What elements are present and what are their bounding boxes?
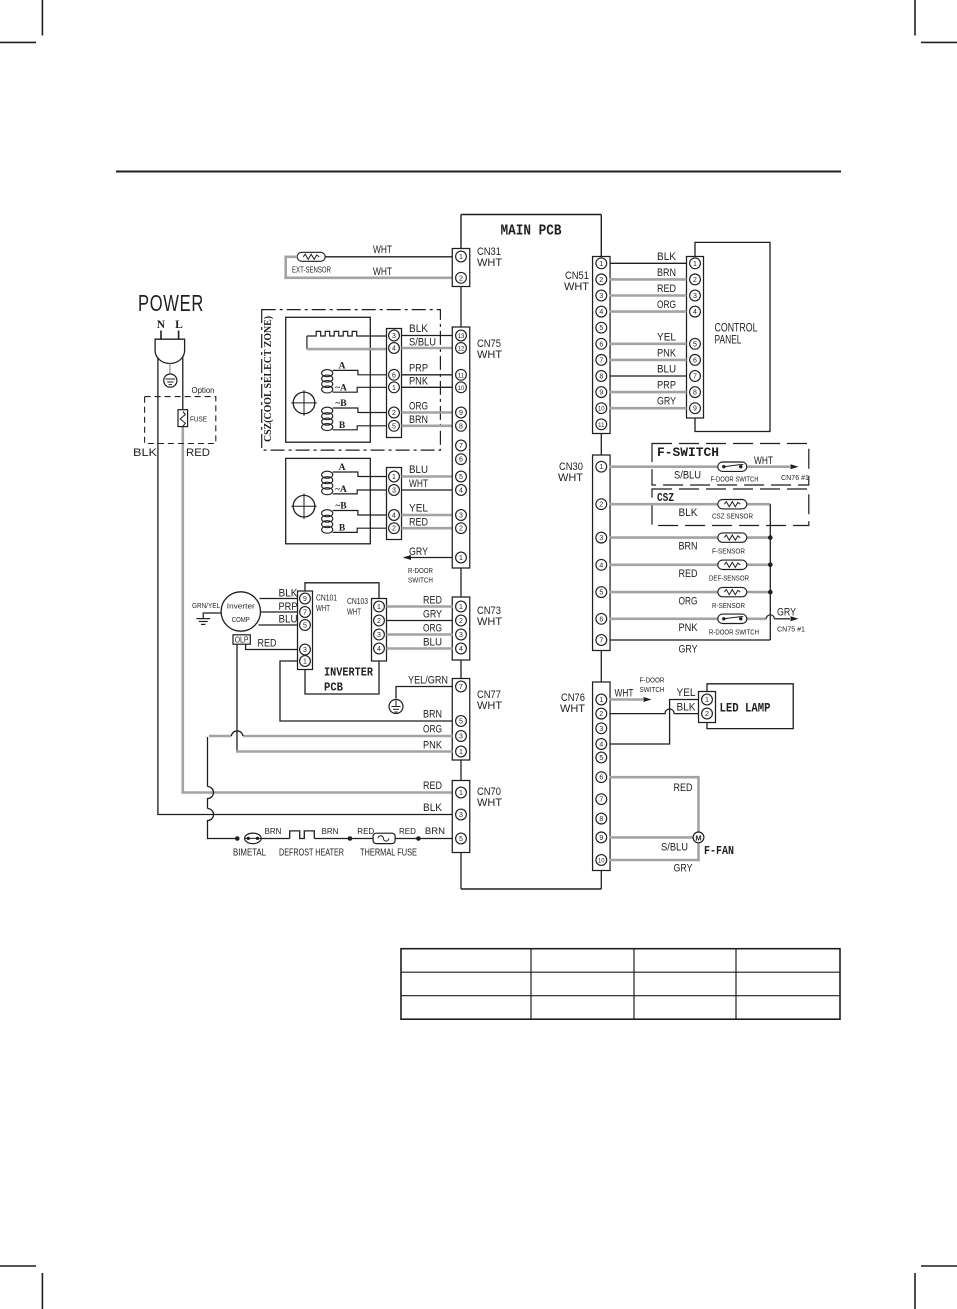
R damper coil B — [322, 502, 387, 534]
svg-text:N: N — [157, 319, 166, 331]
CSZ damper coil B — [322, 399, 387, 431]
svg-text:WHT: WHT — [347, 607, 361, 617]
svg-text:GRN/YEL: GRN/YEL — [192, 601, 220, 610]
wire ORG CN51 to control panel — [610, 310, 687, 313]
svg-text:9: 9 — [599, 390, 603, 397]
CSZ damper motor — [291, 390, 317, 416]
ground GRN/YEL — [196, 613, 221, 624]
svg-text:PNK: PNK — [679, 622, 699, 634]
wire RED damper to CN75 pin2 — [402, 527, 453, 530]
CSZ damper coil A — [322, 362, 387, 394]
svg-text:WHT: WHT — [477, 616, 502, 628]
inverter compressor COMP — [221, 592, 260, 631]
parts table — [401, 949, 840, 1020]
svg-text:RED: RED — [423, 780, 442, 792]
svg-text:~A: ~A — [335, 485, 347, 495]
sensor bus vertical — [769, 504, 771, 640]
DEF sensor — [709, 560, 749, 582]
svg-text:BLK: BLK — [409, 323, 429, 335]
svg-text:WHT: WHT — [477, 349, 502, 361]
svg-text:F-DOOR SWITCH: F-DOOR SWITCH — [711, 475, 759, 484]
svg-text:1: 1 — [459, 254, 463, 261]
svg-text:DEFROST HEATER: DEFROST HEATER — [279, 848, 344, 859]
connector CSZ-damper — [387, 329, 402, 438]
connector CN75 — [452, 327, 502, 568]
bimetal — [233, 833, 266, 858]
main PCB box — [461, 215, 601, 890]
wire PRP damper to CN75 pin11 — [402, 374, 453, 376]
wire S/BLU damper to CN75 pin12 — [402, 347, 453, 350]
svg-text:BLU: BLU — [279, 614, 298, 626]
svg-text:7: 7 — [459, 684, 463, 691]
connector CN51 — [564, 257, 610, 434]
svg-text:1: 1 — [392, 385, 396, 392]
svg-text:5: 5 — [303, 623, 307, 630]
wire CN70 to bottom edge — [460, 853, 462, 890]
svg-text:13: 13 — [458, 334, 465, 340]
R-door switch — [709, 614, 759, 636]
Option dashed box — [145, 397, 216, 444]
svg-text:1: 1 — [459, 555, 463, 562]
wire WHT CN76 pin1 to F-door switch — [610, 698, 643, 701]
svg-text:YEL: YEL — [409, 503, 428, 515]
svg-text:1: 1 — [599, 464, 603, 471]
connector LED-lamp — [699, 692, 716, 723]
svg-text:1: 1 — [303, 659, 307, 666]
R damper motor — [291, 493, 317, 519]
svg-text:YEL: YEL — [657, 331, 676, 343]
svg-text:WHT: WHT — [373, 244, 392, 256]
svg-text:CSZ: CSZ — [657, 491, 674, 505]
svg-text:BLK: BLK — [657, 251, 677, 263]
svg-text:6: 6 — [599, 341, 603, 348]
svg-text:BLU: BLU — [409, 464, 428, 476]
svg-text:B: B — [339, 524, 346, 534]
svg-text:WHT: WHT — [373, 266, 392, 278]
svg-text:2: 2 — [377, 618, 381, 625]
svg-text:PCB: PCB — [324, 681, 343, 695]
svg-text:5: 5 — [459, 836, 463, 843]
R damper housing box — [286, 458, 371, 543]
wire PRP COMP to CN101 pin7 — [261, 611, 298, 613]
svg-text:CN76 #1: CN76 #1 — [781, 473, 809, 482]
svg-text:RED: RED — [657, 283, 676, 295]
svg-text:PNK: PNK — [423, 740, 443, 752]
wire RED junction to thermal fuse — [350, 838, 373, 840]
svg-text:ORG: ORG — [409, 401, 428, 413]
svg-text:7: 7 — [599, 357, 603, 364]
wire PRP CN51 to control panel — [610, 391, 687, 394]
CSZ damper housing box — [286, 317, 371, 442]
wire YEL CN76 pin4 to LED pin1 — [610, 700, 699, 745]
wire PNK OLP to CN77 pin1 — [236, 644, 238, 751]
svg-text:WHT: WHT — [477, 257, 502, 269]
node bus R-sensor — [768, 590, 773, 595]
svg-text:3: 3 — [459, 513, 463, 520]
wire CN77 to CN70 — [460, 760, 462, 781]
svg-text:A: A — [339, 463, 346, 473]
svg-text:CN101: CN101 — [316, 593, 337, 603]
wire CN76 to bottom edge — [600, 871, 602, 890]
svg-text:6: 6 — [459, 457, 463, 464]
svg-text:6: 6 — [599, 775, 603, 782]
ground screw on plug — [164, 363, 177, 387]
svg-text:3: 3 — [459, 734, 463, 741]
svg-text:4: 4 — [459, 646, 463, 653]
svg-text:2: 2 — [459, 618, 463, 625]
svg-text:FUSE: FUSE — [190, 415, 207, 424]
svg-text:4: 4 — [599, 309, 603, 316]
R sensor — [712, 587, 747, 610]
svg-text:~B: ~B — [335, 399, 347, 409]
wire BRN CN101 pin1 to CN77 pin5 — [280, 661, 453, 721]
svg-text:2: 2 — [693, 277, 697, 284]
svg-text:1: 1 — [693, 261, 697, 268]
svg-text:2: 2 — [599, 502, 603, 509]
svg-text:GRY: GRY — [777, 607, 797, 619]
wire BRN bimetal to defrost heater — [261, 838, 290, 840]
svg-text:BLK: BLK — [279, 588, 299, 600]
svg-text:S/BLU: S/BLU — [409, 337, 436, 349]
svg-text:2: 2 — [459, 526, 463, 533]
svg-text:5: 5 — [599, 325, 603, 332]
wire BRN damper to CN75 pin8 — [402, 424, 453, 427]
svg-text:10: 10 — [598, 859, 605, 865]
wire BLK CN51 to control panel — [610, 262, 687, 264]
connector CN103 — [372, 599, 387, 662]
svg-text:BRN: BRN — [657, 267, 676, 279]
wire ORG CN30 pin5 to R sensor — [610, 591, 771, 594]
wire PNK CN51 to control panel — [610, 359, 687, 362]
wire WHT EXT-SENSOR to CN31 pin1 — [325, 256, 453, 258]
svg-text:6: 6 — [392, 372, 396, 379]
wire GRY CN103 to CN73 pin2 — [387, 620, 453, 622]
defrost heater — [279, 831, 344, 859]
wire RED from plug through fuse — [182, 358, 184, 410]
svg-text:WHT: WHT — [560, 703, 585, 715]
wire WHT CN30 pin1 through F-door switch — [610, 465, 790, 468]
wire PNK CN30 pin6 through R-door switch — [610, 617, 767, 620]
svg-text:CN75 #1: CN75 #1 — [777, 625, 805, 634]
svg-text:EXT-SENSOR: EXT-SENSOR — [292, 266, 331, 275]
wire GRY CN51 to control panel — [610, 407, 687, 410]
node bus DEF-sensor — [768, 563, 773, 568]
svg-text:1: 1 — [599, 697, 603, 704]
svg-text:4: 4 — [392, 513, 396, 520]
svg-text:F-FAN: F-FAN — [704, 844, 734, 858]
svg-text:3: 3 — [599, 293, 603, 300]
svg-text:8: 8 — [599, 374, 603, 381]
CSZ dashed box — [652, 489, 809, 526]
svg-text:GRY: GRY — [409, 546, 429, 558]
wire GRY CN30 pin7 to sensor bus — [610, 639, 771, 641]
svg-text:5: 5 — [459, 719, 463, 726]
svg-text:PRP: PRP — [657, 380, 676, 392]
svg-text:F-SWITCH: F-SWITCH — [657, 445, 719, 460]
svg-text:~B: ~B — [335, 502, 347, 512]
svg-text:WHT: WHT — [564, 281, 589, 293]
svg-text:WHT: WHT — [316, 603, 330, 613]
svg-text:3: 3 — [377, 632, 381, 639]
svg-text:1: 1 — [459, 790, 463, 797]
wire RED CN76 pin6 to F-fan — [610, 777, 699, 832]
power plug — [155, 331, 185, 364]
svg-text:GRY: GRY — [657, 396, 677, 408]
svg-text:7: 7 — [693, 374, 697, 381]
svg-text:1: 1 — [459, 604, 463, 611]
svg-text:INVERTER: INVERTER — [324, 666, 374, 680]
svg-text:S/BLU: S/BLU — [674, 470, 701, 482]
svg-text:~A: ~A — [335, 384, 347, 394]
svg-text:F-SENSOR: F-SENSOR — [712, 547, 745, 556]
svg-text:Inverter: Inverter — [227, 602, 256, 611]
svg-text:1: 1 — [459, 749, 463, 756]
svg-text:CSZ(COOL SELECT ZONE): CSZ(COOL SELECT ZONE) — [263, 316, 274, 442]
R damper coil A — [322, 463, 387, 495]
svg-text:F-DOOR: F-DOOR — [640, 676, 665, 685]
svg-text:7: 7 — [459, 443, 463, 450]
svg-text:WHT: WHT — [477, 700, 502, 712]
svg-text:7: 7 — [303, 610, 307, 617]
svg-text:YEL: YEL — [677, 687, 696, 699]
svg-text:BRN: BRN — [679, 541, 698, 553]
INVERTER PCB box — [305, 583, 379, 695]
wire BLK CN76 pin2 to LED pin2 — [610, 709, 699, 714]
svg-text:10: 10 — [458, 386, 465, 392]
wire BLU CN51 to control panel — [610, 375, 687, 377]
wire RED CN30 pin4 to DEF sensor — [610, 563, 771, 566]
svg-text:BLK: BLK — [679, 507, 699, 519]
connector CN31 — [452, 246, 502, 287]
node defrost chain junction 1 — [235, 836, 240, 841]
wire YEL/GRN CN77 pin7 to earth — [396, 687, 453, 699]
svg-text:9: 9 — [693, 406, 697, 413]
svg-text:POWER: POWER — [138, 290, 204, 316]
wire PNK damper to CN75 pin10 — [402, 386, 453, 388]
wire BLK damper to CN75 pin13 — [402, 335, 453, 337]
svg-text:11: 11 — [598, 423, 605, 429]
svg-text:B: B — [339, 421, 346, 431]
OLP overload protector — [233, 635, 250, 645]
wire WHT damper to CN75 pin4 — [402, 489, 453, 491]
F-SWITCH dashed box — [652, 444, 809, 486]
svg-text:4: 4 — [599, 742, 603, 749]
thermal fuse — [360, 833, 417, 858]
svg-text:BRN: BRN — [409, 414, 428, 426]
wire CN51 to CN30 — [600, 434, 602, 456]
svg-text:R-SENSOR: R-SENSOR — [712, 601, 745, 610]
connector CN77 — [452, 679, 502, 761]
svg-text:9: 9 — [599, 835, 603, 842]
svg-text:5: 5 — [693, 341, 697, 348]
LED LAMP box — [707, 684, 793, 729]
svg-text:ORG: ORG — [657, 299, 676, 311]
svg-text:BRN: BRN — [423, 709, 442, 721]
svg-text:BRN: BRN — [265, 827, 282, 836]
svg-text:BLK: BLK — [677, 702, 697, 714]
svg-text:3: 3 — [599, 726, 603, 733]
svg-text:2: 2 — [599, 277, 603, 284]
wire BRN CN30 pin3 to F sensor — [610, 536, 771, 539]
wire CN73 to CN77 — [460, 660, 462, 679]
svg-text:COMP: COMP — [232, 615, 250, 624]
connector CN101 — [298, 591, 313, 670]
svg-text:PANEL: PANEL — [715, 333, 742, 347]
svg-text:R-DOOR: R-DOOR — [408, 566, 433, 575]
svg-text:GRY: GRY — [679, 644, 699, 656]
svg-text:RED: RED — [679, 568, 698, 580]
svg-text:1: 1 — [377, 604, 381, 611]
svg-text:A: A — [339, 362, 346, 372]
svg-text:5: 5 — [392, 423, 396, 430]
wire GRY CN76 pin10 to F-fan — [610, 843, 699, 860]
wire CN31 to CN75 — [460, 287, 462, 328]
fuse F1 — [178, 410, 207, 427]
svg-text:BRN: BRN — [425, 826, 445, 837]
connector R-damper — [387, 468, 402, 540]
svg-text:1: 1 — [599, 261, 603, 268]
svg-text:GRY: GRY — [423, 609, 443, 621]
svg-text:BRN: BRN — [322, 827, 339, 836]
wire ORG CN103 to CN73 pin3 — [387, 633, 453, 636]
svg-text:RED: RED — [674, 782, 693, 794]
wire ORG damper to CN75 pin9 — [402, 411, 453, 414]
svg-text:4: 4 — [392, 346, 396, 353]
svg-text:3: 3 — [599, 535, 603, 542]
svg-text:ORG: ORG — [679, 596, 698, 608]
svg-text:3: 3 — [459, 632, 463, 639]
wire CN30 to CN76 — [600, 651, 602, 683]
svg-text:WHT: WHT — [409, 478, 428, 490]
svg-text:SWITCH: SWITCH — [640, 685, 665, 694]
svg-text:WHT: WHT — [558, 472, 583, 484]
wire BLK from plug — [158, 358, 453, 815]
node bus F-sensor — [768, 535, 773, 540]
svg-text:6: 6 — [693, 357, 697, 364]
node defrost chain junction 2 — [348, 836, 353, 841]
svg-text:M: M — [695, 834, 701, 843]
svg-text:3: 3 — [459, 812, 463, 819]
svg-text:WHT: WHT — [754, 455, 773, 467]
svg-text:3: 3 — [392, 488, 396, 495]
svg-text:LED LAMP: LED LAMP — [720, 702, 771, 716]
svg-text:7: 7 — [599, 797, 603, 804]
CSZ damper heater comb — [307, 331, 387, 349]
svg-text:12: 12 — [458, 347, 465, 353]
svg-text:PNK: PNK — [409, 376, 429, 388]
svg-text:BIMETAL: BIMETAL — [233, 848, 266, 859]
svg-text:RED: RED — [423, 595, 442, 607]
svg-text:6: 6 — [599, 616, 603, 623]
svg-text:RED: RED — [399, 827, 416, 836]
svg-text:5: 5 — [459, 474, 463, 481]
wire BRN defrost heater to junction — [314, 838, 350, 840]
node defrost chain junction 3 — [416, 836, 421, 841]
svg-text:BLK: BLK — [423, 802, 443, 814]
svg-text:10: 10 — [598, 407, 605, 413]
svg-text:8: 8 — [599, 816, 603, 823]
connector CN70 — [452, 781, 502, 853]
svg-text:SWITCH: SWITCH — [408, 576, 433, 585]
svg-text:PRP: PRP — [409, 363, 428, 375]
earth ground symbol — [389, 700, 403, 714]
svg-text:2: 2 — [459, 275, 463, 282]
svg-text:ORG: ORG — [423, 623, 442, 635]
svg-text:CN103: CN103 — [347, 596, 368, 606]
svg-text:PNK: PNK — [657, 347, 677, 359]
svg-text:R-DOOR SWITCH: R-DOOR SWITCH — [709, 628, 759, 637]
CSZ sensor — [712, 500, 753, 521]
wire YEL damper to CN75 pin3 — [402, 514, 453, 517]
wire ORG CN77 pin3 down to defrost circuit — [243, 735, 453, 738]
wire YEL CN51 to control panel — [610, 342, 687, 345]
svg-text:9: 9 — [303, 596, 307, 603]
wire RED OLP to CN101 pin3 — [246, 644, 298, 649]
svg-text:1: 1 — [705, 697, 709, 704]
svg-text:RED: RED — [258, 638, 277, 650]
svg-text:RED: RED — [357, 827, 374, 836]
wire BLU damper to CN75 pin5 — [402, 475, 453, 478]
F-door switch — [711, 462, 759, 484]
svg-text:2: 2 — [599, 711, 603, 718]
wire BRN CN51 to control panel — [610, 278, 687, 281]
F sensor — [712, 533, 747, 556]
svg-text:S/BLU: S/BLU — [661, 842, 688, 854]
wire S/BLU CN76 pin9 to F-fan — [610, 836, 694, 839]
connector CP — [687, 257, 704, 419]
wire BLK COMP to CN101 pin9 — [260, 598, 298, 600]
wire RED CN51 to control panel — [610, 294, 687, 297]
wire BLU CN103 to CN73 pin4 — [387, 647, 453, 650]
control panel box — [695, 242, 770, 431]
svg-text:RED: RED — [186, 447, 210, 459]
connector CN30 — [558, 455, 610, 651]
svg-text:BLK: BLK — [133, 447, 158, 459]
svg-text:2: 2 — [705, 711, 709, 718]
svg-text:PRP: PRP — [279, 601, 298, 613]
svg-text:MAIN PCB: MAIN PCB — [501, 224, 562, 240]
wire BRN junction to CN70 pin5 — [418, 838, 452, 840]
svg-text:DEF-SENSOR: DEF-SENSOR — [709, 574, 749, 583]
EXT-SENSOR thermistor — [292, 252, 331, 274]
svg-text:5: 5 — [599, 755, 603, 762]
svg-text:7: 7 — [599, 638, 603, 645]
svg-text:ORG: ORG — [423, 724, 442, 736]
svg-text:11: 11 — [458, 373, 465, 379]
svg-text:L: L — [175, 319, 183, 331]
svg-text:THERMAL FUSE: THERMAL FUSE — [360, 848, 417, 859]
svg-text:4: 4 — [693, 309, 697, 316]
wire BLK CN30 pin2 to CSZ sensor — [610, 503, 771, 506]
svg-text:Option: Option — [192, 385, 215, 395]
svg-text:4: 4 — [377, 646, 381, 653]
svg-text:2: 2 — [392, 526, 396, 533]
svg-text:YEL/GRN: YEL/GRN — [408, 675, 448, 687]
svg-text:BLU: BLU — [657, 364, 676, 376]
svg-text:WHT: WHT — [477, 797, 502, 809]
CSZ cool select zone dash-dot box — [262, 310, 441, 451]
svg-text:4: 4 — [459, 488, 463, 495]
wire BLU COMP to CN101 pin5 — [259, 624, 298, 626]
wire RED CN103 to CN73 pin1 — [387, 605, 453, 608]
svg-text:3: 3 — [392, 333, 396, 340]
connector CN76 — [560, 682, 610, 871]
wire GRY CN75 pin1 to R-door switch — [404, 557, 453, 559]
connector CN73 — [452, 597, 502, 660]
svg-text:BLU: BLU — [423, 637, 442, 649]
svg-text:3: 3 — [303, 647, 307, 654]
svg-text:1: 1 — [392, 474, 396, 481]
